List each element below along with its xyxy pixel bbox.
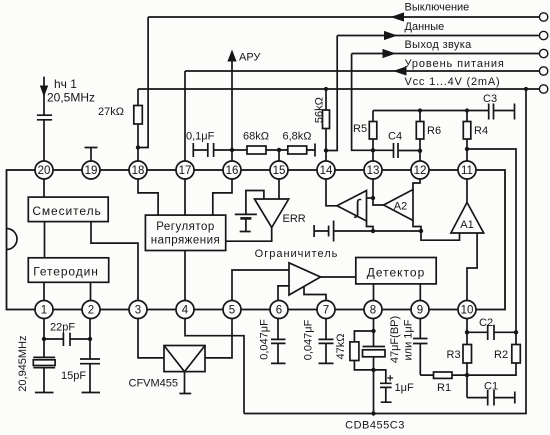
terminal Данные [539, 31, 547, 39]
svg-text:22pF: 22pF [50, 322, 75, 334]
pin 10 [458, 301, 476, 319]
svg-text:Выход звука: Выход звука [405, 39, 473, 51]
wire pin12 to A2 [413, 179, 420, 190]
pin 2 [82, 301, 100, 319]
wire ERR input to reference [246, 191, 264, 215]
capacitor 22pF [44, 322, 90, 347]
capacitor или 1μF at pin 9 [413, 319, 428, 376]
svg-text:Гетеродин: Гетеродин [33, 265, 99, 279]
svg-text:A1: A1 [460, 219, 473, 231]
pin 3 [129, 301, 147, 319]
resistor 27kΩ [98, 89, 142, 148]
wire pin7 to limiter [304, 287, 326, 301]
wire heterodyne to pin 1 [43, 282, 45, 300]
pin 19 [82, 161, 100, 179]
wire pin5 to filter [205, 319, 232, 358]
capacitor input coupling [37, 115, 52, 161]
wire Данные line [337, 35, 539, 37]
wire Выключение riser to pin 18 node [138, 17, 148, 148]
op-amp ERR [255, 199, 306, 228]
wire heterodyne to pin 2 [90, 282, 92, 300]
pin 14 [317, 161, 335, 179]
wire pin8 down [373, 319, 375, 332]
op-amp integrator [337, 191, 367, 222]
wire Выключение line [148, 16, 539, 18]
wire regulator to pin 4 [184, 251, 186, 301]
node rail junction [371, 411, 375, 415]
pin 16 [223, 161, 241, 179]
T terminal above pin 19 [85, 148, 98, 162]
svg-text:Регулятор: Регулятор [156, 221, 215, 233]
svg-text:Уровень питания: Уровень питания [405, 58, 505, 70]
resistor 6,8kΩ with end bar [279, 131, 315, 157]
svg-text:11: 11 [461, 165, 473, 177]
wire pin4 to ground rail [185, 319, 244, 414]
svg-text:6,8kΩ: 6,8kΩ [283, 131, 312, 143]
wire pin15 stub [278, 150, 280, 161]
capacitor C3 with end bar [483, 93, 515, 120]
svg-text:15: 15 [273, 165, 286, 177]
pin 15 [270, 161, 288, 179]
svg-text:56kΩ: 56kΩ [314, 97, 326, 123]
svg-text:hч 1: hч 1 [54, 77, 77, 91]
wire A1 output to pin 11 [466, 179, 468, 202]
wire detector to pin 8 [373, 284, 375, 301]
svg-text:R4: R4 [474, 125, 488, 137]
block Смеситель [28, 197, 108, 222]
wire pin15 to ERR [278, 179, 280, 199]
wire Выход звука line [352, 53, 540, 55]
wire integrator output to pin 14 [326, 179, 337, 206]
terminal Выключение [539, 13, 547, 21]
wire node to A2 output [373, 198, 384, 205]
svg-text:12: 12 [414, 165, 427, 177]
pin 5 [223, 301, 241, 319]
svg-text:3: 3 [135, 304, 141, 316]
pin 6 [270, 301, 288, 319]
capacitor 0,047μF at pin 7 [303, 319, 334, 364]
svg-text:13: 13 [367, 165, 380, 177]
capacitor C1 with end bar [467, 381, 515, 406]
wire pin16 to regulator [213, 179, 232, 215]
IC notch [7, 229, 18, 250]
wire node to integrator input [367, 197, 374, 199]
node A2 bottom [419, 229, 423, 233]
svg-text:10: 10 [461, 304, 474, 316]
svg-text:R5: R5 [353, 123, 367, 135]
node pin15 junction [277, 148, 281, 152]
wire ERR output to regulator [226, 228, 272, 242]
wire A1 right input to pin 10 [467, 233, 477, 301]
svg-text:20: 20 [38, 165, 51, 177]
svg-text:R1: R1 [437, 382, 451, 394]
wire detector to pin 9 [419, 284, 421, 301]
svg-text:4: 4 [182, 304, 189, 316]
wire R4 node to R2 node [467, 149, 516, 332]
node R3 bottom junction [465, 373, 469, 377]
svg-text:R3: R3 [447, 349, 461, 361]
wire АРУ riser from pin 16 [231, 57, 233, 161]
wire to A1 left input [421, 231, 460, 240]
wire pin18 stub [137, 148, 139, 162]
filter CFVM455 [129, 346, 206, 394]
svg-text:6: 6 [276, 304, 282, 316]
wire limiter output to detector [321, 276, 356, 278]
resistor 47kΩ [335, 331, 373, 370]
block Регулятор напряжения [145, 215, 225, 250]
node pin11 junction [465, 147, 469, 151]
wire mixer output to pin 3 [91, 222, 138, 301]
wire Vcc right rail down and bottom rail [244, 89, 526, 414]
wire Данные riser to pin 14 node [326, 36, 337, 151]
wire mixer to heterodyne [44, 222, 46, 258]
node pin10 [465, 330, 469, 334]
node pin12 junction [418, 149, 422, 153]
svg-text:0,047μF: 0,047μF [303, 319, 315, 360]
wire pin13 stub [372, 150, 374, 161]
block Гетеродин [28, 258, 108, 283]
svg-text:R2: R2 [494, 349, 508, 361]
wire Уровень питания line [185, 70, 539, 72]
svg-text:C4: C4 [388, 131, 402, 143]
svg-text:R6: R6 [427, 125, 441, 137]
svg-text:Выключение: Выключение [405, 2, 470, 14]
arrow input signal (points down) [40, 77, 48, 116]
pin 13 [364, 161, 382, 179]
capacitor C4 [373, 131, 420, 159]
wire integrator bottom jog [367, 221, 374, 231]
capacitor 0,1μF with end bar [186, 131, 232, 158]
wire pin14 stub [325, 151, 327, 162]
pin 20 [35, 161, 53, 179]
svg-text:27kΩ: 27kΩ [98, 106, 124, 118]
resistor R1 [420, 372, 467, 394]
node pin1 [42, 337, 46, 341]
svg-text:CFVM455: CFVM455 [129, 378, 179, 390]
block Детектор [356, 258, 436, 284]
arrow Уровень питания (points left) [393, 66, 407, 75]
svg-text:Детектор: Детектор [367, 266, 426, 280]
resistor R2 [467, 332, 520, 375]
pin 7 [317, 301, 335, 319]
pin 17 [176, 161, 194, 179]
svg-text:0,047μF: 0,047μF [259, 319, 271, 360]
capacitor C2 [467, 317, 516, 340]
svg-text:1: 1 [41, 304, 47, 316]
wire pin18 to regulator [138, 179, 158, 215]
wire pin12 stub [419, 151, 421, 161]
svg-text:Данные: Данные [405, 21, 445, 33]
node pin16 junction [230, 148, 234, 152]
wire Vcc line [138, 88, 539, 90]
wire pin5 to limiter input [232, 270, 289, 301]
svg-text:5: 5 [229, 304, 235, 316]
wire top rail [373, 110, 489, 112]
resistor R6 [416, 111, 441, 151]
node R2 top [514, 330, 518, 334]
op-amp limiter [289, 263, 321, 295]
pin 1 [35, 301, 53, 319]
node integrator bottom [371, 229, 375, 233]
wire Выход звука riser to pin 13 node [352, 54, 373, 151]
svg-text:8: 8 [370, 304, 376, 316]
pin 4 [176, 301, 194, 319]
svg-text:47kΩ: 47kΩ [335, 334, 347, 360]
svg-text:C2: C2 [479, 317, 493, 329]
pin 11 [458, 161, 476, 179]
svg-text:АРУ: АРУ [239, 52, 261, 64]
node pin8 lower [371, 368, 375, 372]
svg-text:47μF(BP): 47μF(BP) [389, 316, 401, 363]
svg-text:A2: A2 [394, 201, 407, 213]
wire pin11 stub [466, 149, 468, 161]
battery reference [235, 214, 257, 231]
svg-text:68kΩ: 68kΩ [243, 131, 269, 143]
svg-text:Vcc 1...4V (2mA): Vcc 1...4V (2mA) [405, 76, 501, 88]
svg-text:C1: C1 [484, 381, 498, 393]
wire pin1 down [43, 319, 45, 358]
arrow Выход звука (points right) [383, 49, 397, 58]
resistor R3 [447, 332, 472, 397]
node 56k top on Vcc [324, 87, 328, 91]
wire pin20 to mixer [43, 179, 45, 197]
pin 12 [411, 161, 429, 179]
svg-text:14: 14 [320, 165, 333, 177]
svg-text:2: 2 [88, 304, 94, 316]
svg-text:18: 18 [132, 165, 145, 177]
wire pin13 into IC [372, 179, 374, 198]
node pin8 upper [371, 329, 375, 333]
capacitor loop filter with end bar [314, 221, 421, 242]
node R4 top [465, 108, 469, 112]
node pin13 internal [371, 196, 375, 200]
capacitor 1μF electrolytic with end bar [374, 370, 414, 402]
terminal Уровень питания [539, 67, 547, 75]
wire pin6 to limiter [278, 286, 289, 301]
wire pin8 node to rail [373, 370, 375, 414]
wire pin17 to regulator [184, 179, 186, 215]
wire Уровень питания riser to pin 17 [184, 71, 186, 161]
svg-text:или 1μF: или 1μF [403, 319, 415, 360]
svg-text:19: 19 [85, 165, 98, 177]
node R6 top [418, 108, 422, 112]
arrow АРУ (points up) [227, 50, 236, 62]
resistor 56kΩ [314, 89, 330, 151]
arrow Выключение (points left) [391, 12, 405, 21]
svg-text:1μF: 1μF [395, 382, 414, 394]
wire A2 bottom jog [413, 221, 421, 232]
terminal Выход звука [539, 49, 547, 57]
svg-text:20,5MHz: 20,5MHz [47, 91, 95, 105]
capacitor 47μF(BP) electrolytic [363, 316, 402, 370]
op-amp A2 [384, 190, 413, 221]
svg-text:CDB455C3: CDB455C3 [345, 420, 405, 432]
node pin2 [88, 337, 92, 341]
wire pin3 to filter [138, 319, 164, 358]
pin 9 [411, 301, 429, 319]
node pin18 junction [136, 145, 140, 149]
node pin13 junction [371, 148, 375, 152]
wire pin10 down [466, 319, 468, 333]
svg-text:напряжения: напряжения [151, 235, 221, 247]
capacitor 0,047μF at pin 6 [259, 319, 286, 364]
svg-text:ERR: ERR [283, 213, 306, 225]
pin 8 [364, 301, 382, 319]
terminal Vcc [539, 85, 547, 93]
svg-text:7: 7 [323, 304, 329, 316]
svg-text:Ограничитель: Ограничитель [255, 248, 339, 260]
svg-text:20,945MHz: 20,945MHz [17, 335, 29, 391]
capacitor 15pF [61, 319, 100, 393]
resistor 68kΩ [232, 131, 279, 155]
pin 18 [129, 161, 147, 179]
op-amp A1 [451, 202, 484, 233]
resistor R5 [353, 111, 377, 151]
svg-text:0,1μF: 0,1μF [186, 131, 215, 143]
node pin14 junction [324, 148, 328, 152]
resistor R4 [463, 111, 488, 150]
svg-text:C3: C3 [483, 93, 497, 105]
arrow Данные (points right) [384, 31, 398, 40]
crystal 20,945MHz [17, 335, 55, 392]
svg-text:Смеситель: Смеситель [32, 204, 101, 218]
node Vcc-rail corner dot [524, 87, 528, 91]
svg-text:16: 16 [226, 165, 239, 177]
IC body U1 [7, 170, 506, 310]
svg-text:9: 9 [417, 304, 423, 316]
svg-text:15pF: 15pF [61, 370, 86, 382]
svg-text:17: 17 [179, 165, 192, 177]
